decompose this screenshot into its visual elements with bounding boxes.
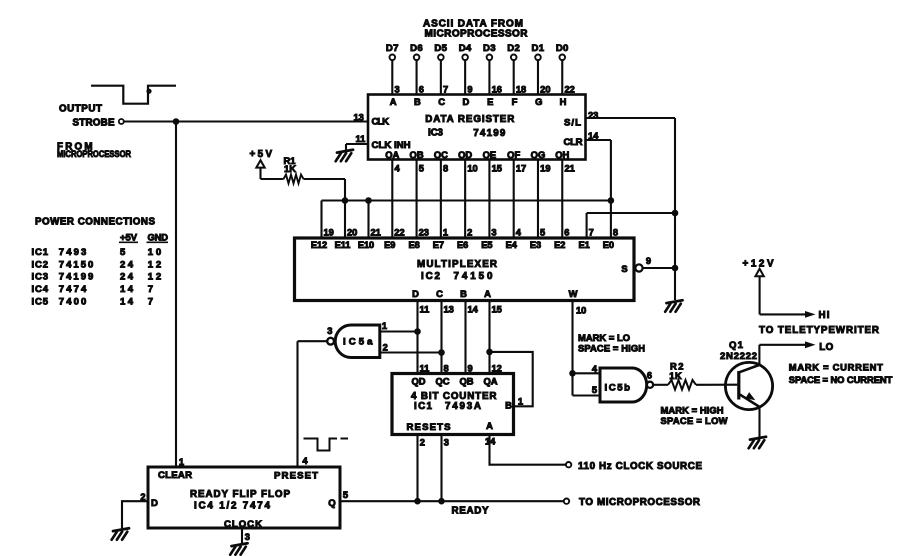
svg-text:QB: QB [410, 149, 424, 160]
svg-text:MULTIPLEXER: MULTIPLEXER [417, 259, 497, 270]
svg-text:1: 1 [179, 457, 184, 467]
svg-text:MARK = HIGH: MARK = HIGH [661, 405, 724, 416]
svg-text:IC4: IC4 [32, 284, 49, 295]
svg-text:8: 8 [613, 228, 618, 238]
svg-text:10: 10 [576, 305, 586, 315]
svg-text:6: 6 [419, 85, 424, 95]
svg-text:IC4 1/2 7474: IC4 1/2 7474 [194, 500, 271, 511]
svg-text:2: 2 [420, 437, 425, 447]
svg-text:13: 13 [354, 112, 364, 122]
svg-text:Q1: Q1 [729, 340, 744, 351]
svg-text:14: 14 [485, 437, 496, 447]
svg-text:14: 14 [588, 131, 599, 141]
svg-text:10: 10 [467, 163, 477, 173]
svg-text:MICROPROCESSOR: MICROPROCESSOR [425, 28, 529, 39]
svg-text:2: 2 [467, 228, 472, 238]
svg-text:4: 4 [302, 456, 308, 466]
svg-text:A: A [486, 420, 493, 431]
svg-text:S: S [621, 263, 627, 274]
svg-text:MARK = CURRENT: MARK = CURRENT [789, 362, 883, 373]
svg-text:9: 9 [468, 364, 473, 374]
svg-text:23: 23 [419, 228, 429, 238]
svg-text:CLOCK: CLOCK [224, 519, 262, 530]
svg-text:5: 5 [343, 490, 348, 500]
svg-text:W: W [569, 288, 578, 299]
svg-text:DATA REGISTER: DATA REGISTER [425, 114, 514, 125]
svg-text:B: B [460, 288, 467, 299]
svg-text:QE: QE [483, 149, 497, 160]
svg-text:TO MICROPROCESSOR: TO MICROPROCESSOR [579, 497, 700, 508]
svg-text:9: 9 [646, 256, 651, 266]
svg-text:21: 21 [371, 228, 381, 238]
svg-text:15: 15 [492, 163, 502, 173]
svg-text:7474: 7474 [59, 284, 87, 295]
svg-text:16: 16 [492, 85, 502, 95]
svg-text:A: A [390, 96, 397, 107]
svg-text:QD: QD [411, 376, 425, 387]
svg-text:19: 19 [540, 163, 550, 173]
svg-text:RESETS: RESETS [407, 422, 452, 433]
svg-text:HI: HI [819, 310, 830, 321]
svg-text:1K: 1K [669, 370, 682, 381]
svg-text:6: 6 [564, 228, 569, 238]
svg-text:3: 3 [327, 326, 332, 336]
svg-text:IC1: IC1 [32, 247, 49, 258]
svg-text:E3: E3 [530, 240, 541, 250]
svg-text:14: 14 [120, 296, 134, 307]
svg-text:QA: QA [483, 376, 497, 387]
svg-text:E1: E1 [578, 240, 589, 250]
svg-text:8: 8 [444, 364, 449, 374]
svg-text:D7: D7 [386, 43, 399, 54]
svg-text:E9: E9 [384, 240, 395, 250]
svg-text:MICROPROCESSOR: MICROPROCESSOR [57, 149, 131, 159]
svg-text:READY FLIP FLOP: READY FLIP FLOP [190, 489, 290, 500]
svg-text:E12: E12 [311, 240, 327, 250]
svg-text:7: 7 [148, 284, 153, 295]
svg-text:B: B [505, 399, 512, 410]
svg-text:E6: E6 [457, 240, 468, 250]
svg-text:+5V: +5V [250, 149, 273, 160]
svg-text:S/L: S/L [564, 117, 581, 128]
svg-text:READY: READY [452, 505, 489, 516]
svg-text:12: 12 [492, 364, 502, 374]
svg-text:7493A: 7493A [445, 401, 481, 412]
svg-text:+12V: +12V [743, 259, 774, 270]
svg-text:15: 15 [492, 304, 502, 314]
svg-text:E10: E10 [358, 240, 374, 250]
svg-text:IC5: IC5 [32, 296, 49, 307]
svg-text:CLEAR: CLEAR [158, 470, 192, 481]
svg-text:74199: 74199 [59, 272, 94, 283]
svg-text:74150: 74150 [59, 259, 94, 270]
svg-text:1: 1 [518, 397, 523, 407]
svg-text:22: 22 [394, 228, 404, 238]
svg-text:G: G [535, 96, 542, 107]
svg-text:Q: Q [328, 498, 336, 509]
svg-text:SPACE = LOW: SPACE = LOW [661, 415, 728, 426]
svg-text:11: 11 [420, 304, 430, 314]
svg-text:C: C [438, 96, 445, 107]
svg-text:IC3: IC3 [32, 272, 49, 283]
svg-text:D: D [412, 288, 419, 299]
svg-text:14: 14 [120, 284, 134, 295]
svg-text:14: 14 [468, 304, 479, 314]
svg-text:74199: 74199 [473, 128, 506, 139]
svg-text:D4: D4 [459, 43, 472, 54]
svg-text:E2: E2 [554, 240, 565, 250]
svg-text:SPACE = NO CURRENT: SPACE = NO CURRENT [789, 374, 893, 385]
svg-text:3: 3 [491, 228, 496, 238]
svg-text:MARK = LO: MARK = LO [578, 332, 630, 343]
svg-text:CLR: CLR [564, 137, 583, 148]
svg-text:E7: E7 [433, 240, 444, 250]
svg-text:11: 11 [356, 134, 366, 144]
svg-text:GND: GND [148, 231, 169, 242]
svg-text:E: E [487, 96, 493, 107]
svg-text:24: 24 [120, 272, 134, 283]
svg-text:1: 1 [382, 321, 387, 331]
svg-text:E5: E5 [481, 240, 492, 250]
svg-text:D6: D6 [410, 43, 423, 54]
svg-text:STROBE: STROBE [73, 118, 115, 129]
svg-text:11: 11 [420, 364, 430, 374]
svg-text:B: B [414, 96, 421, 107]
svg-text:4: 4 [516, 228, 522, 238]
svg-text:D2: D2 [507, 43, 520, 54]
svg-text:5: 5 [540, 228, 545, 238]
svg-text:QC: QC [435, 376, 449, 387]
svg-text:TO TELETYPEWRITER: TO TELETYPEWRITER [759, 325, 879, 336]
svg-text:5: 5 [120, 247, 126, 258]
svg-text:7: 7 [443, 85, 448, 95]
svg-text:D1: D1 [532, 43, 545, 54]
svg-text:QH: QH [555, 149, 569, 160]
svg-text:QA: QA [385, 149, 399, 160]
svg-text:E0: E0 [603, 240, 614, 250]
svg-text:A: A [484, 288, 491, 299]
svg-text:4: 4 [592, 364, 598, 374]
svg-text:SPACE = HIGH: SPACE = HIGH [578, 342, 645, 353]
svg-text:18: 18 [516, 85, 526, 95]
svg-text:LO: LO [819, 342, 833, 353]
svg-text:D: D [463, 96, 470, 107]
svg-text:F: F [512, 96, 518, 107]
svg-text:1K: 1K [284, 163, 296, 174]
svg-text:QF: QF [507, 149, 520, 160]
svg-text:QD: QD [458, 149, 472, 160]
svg-text:7: 7 [589, 228, 594, 238]
svg-text:5: 5 [419, 163, 424, 173]
svg-text:3: 3 [444, 437, 449, 447]
svg-text:OUTPUT: OUTPUT [59, 104, 102, 115]
svg-text:1: 1 [443, 228, 448, 238]
svg-text:CLK: CLK [372, 116, 390, 127]
svg-text:3: 3 [245, 532, 250, 542]
svg-text:23: 23 [588, 111, 598, 121]
svg-text:2: 2 [140, 492, 145, 502]
svg-text:5: 5 [592, 385, 597, 395]
svg-text:IC2: IC2 [32, 259, 49, 270]
svg-text:4: 4 [395, 163, 401, 173]
svg-text:17: 17 [516, 163, 526, 173]
svg-text:19: 19 [324, 228, 334, 238]
svg-text:+5V: +5V [120, 231, 138, 242]
svg-text:D0: D0 [556, 43, 569, 54]
svg-text:E4: E4 [506, 240, 518, 250]
svg-text:D: D [151, 498, 158, 509]
svg-text:22: 22 [564, 85, 574, 95]
svg-text:7: 7 [148, 296, 153, 307]
svg-text:QG: QG [531, 149, 546, 160]
svg-text:110 Hz CLOCK SOURCE: 110 Hz CLOCK SOURCE [578, 461, 702, 472]
svg-text:E11: E11 [335, 240, 351, 250]
svg-text:D5: D5 [434, 43, 447, 54]
svg-text:20: 20 [540, 85, 550, 95]
svg-text:E8: E8 [408, 240, 419, 250]
svg-text:IC5b: IC5b [605, 382, 631, 393]
svg-text:H: H [560, 96, 567, 107]
svg-text:21: 21 [564, 163, 574, 173]
svg-text:20: 20 [347, 228, 357, 238]
svg-text:9: 9 [467, 85, 472, 95]
svg-text:2: 2 [383, 343, 388, 353]
svg-text:IC3: IC3 [428, 128, 444, 139]
svg-text:C: C [436, 288, 443, 299]
svg-text:QC: QC [434, 149, 448, 160]
svg-text:13: 13 [444, 304, 454, 314]
svg-text:8: 8 [443, 163, 448, 173]
svg-text:POWER CONNECTIONS: POWER CONNECTIONS [35, 216, 155, 227]
svg-text:3: 3 [395, 85, 400, 95]
svg-text:6: 6 [647, 370, 652, 380]
svg-text:QB: QB [459, 376, 473, 387]
svg-text:24: 24 [120, 259, 134, 270]
svg-text:2N2222: 2N2222 [720, 351, 757, 362]
svg-text:D3: D3 [483, 43, 496, 54]
